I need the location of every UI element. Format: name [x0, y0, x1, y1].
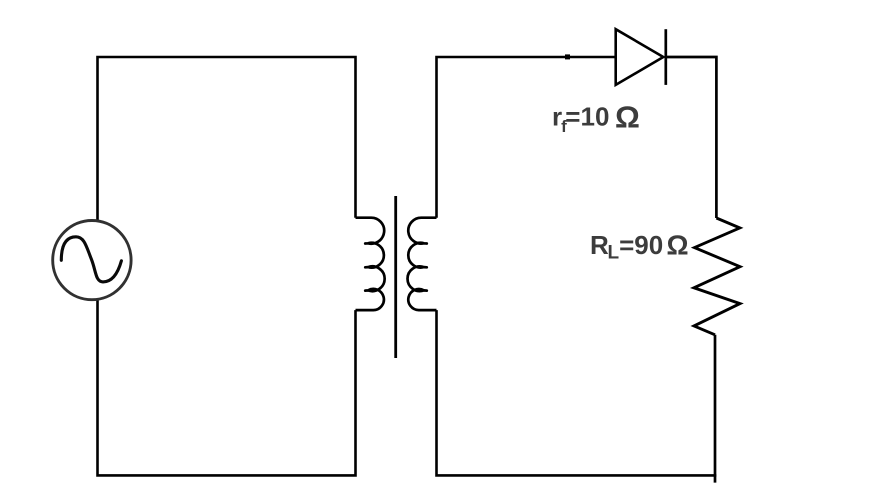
- wire: diode cathode to top-right corner, down to resistor top: [666, 57, 716, 218]
- wire junction nub on top wire: [565, 54, 570, 59]
- svg-text:RL=90: RL=90: [590, 230, 663, 264]
- wire: secondary loop left/top (from transformer secondary top, up, across to diode anode): [437, 57, 617, 218]
- wire: secondary loop bottom (from transformer secondary bottom, down, across bottom): [437, 310, 717, 475]
- AC source V1 (circle): [53, 221, 131, 300]
- resistor RL (zigzag): [694, 218, 740, 335]
- transformer T1 core: [394, 196, 397, 358]
- AC source V1 sine symbol: [61, 237, 121, 282]
- svg-text:Ω: Ω: [667, 229, 689, 260]
- transformer T1 secondary winding: [408, 218, 437, 310]
- svg-text:Ω: Ω: [615, 100, 640, 135]
- svg-text:rf=10: rf=10: [552, 101, 609, 135]
- diode D1 cathode bar: [664, 29, 667, 85]
- wire: primary loop bottom (from AC source bottom, down, across, up to transformer primary bottom): [98, 299, 356, 475]
- wire: primary loop left/top (from AC source top, up, across, down to transformer primary top): [98, 57, 356, 221]
- transformer T1 primary winding: [356, 218, 385, 310]
- wire: resistor bottom lead down (with overshoot past bottom wire): [714, 335, 717, 483]
- diode D1 (triangle anode): [616, 29, 664, 85]
